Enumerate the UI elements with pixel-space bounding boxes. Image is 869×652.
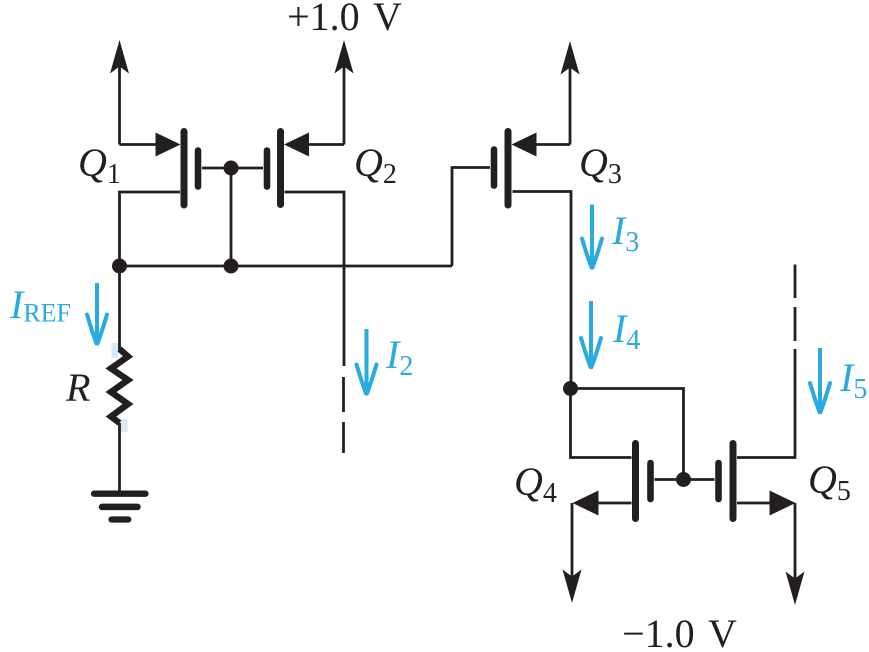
power arrow to +1.0V (Q3 source): [561, 41, 580, 145]
wire Q3 drain down: [513, 192, 572, 389]
wire I5 continuation dashed: [794, 265, 797, 342]
transistor Q3: [494, 132, 537, 206]
wire Q2 drain down: [285, 192, 345, 366]
transistor Q5: [719, 444, 796, 519]
current arrow I2: [357, 329, 377, 394]
ground: [94, 494, 146, 520]
junction gate node dot: [224, 161, 239, 176]
wire resistor to ground: [118, 423, 121, 491]
highlight mark bottom of resistor: [121, 419, 128, 432]
junction node A dot: [112, 259, 127, 274]
power arrow to +1.0V (Q1 source): [110, 40, 129, 145]
junction dot at node A / gate column: [224, 259, 239, 274]
wire Q1 drain to node A: [120, 192, 181, 266]
wire node A down to resistor: [118, 266, 121, 350]
current arrow I4: [581, 301, 601, 367]
junction dot Q4/Q5 gates: [676, 472, 691, 487]
current arrow I5: [810, 348, 830, 412]
wire Q1 gate to node: [202, 167, 231, 170]
power arrow to +1.0V (Q2 source): [335, 40, 354, 145]
transistor Q1: [156, 132, 199, 206]
current arrow I3: [582, 205, 602, 268]
highlight mark top of resistor: [112, 343, 119, 358]
transistor Q2: [267, 132, 309, 205]
wire gate node to Q2 gate: [231, 167, 263, 170]
wire I2 continuation dashed: [342, 377, 345, 453]
wire Q1 source lead: [120, 143, 163, 146]
svg-text:−1.0 V: −1.0 V: [622, 611, 737, 652]
wire Q4 source lead: [596, 502, 632, 505]
power arrow to -1.0V (Q5 source): [786, 503, 805, 605]
wire junction down to Q4 drain: [571, 389, 632, 458]
wire Q3 source lead: [534, 143, 570, 146]
wire Q2 source lead: [306, 143, 344, 146]
wire node A up to Q3 gate: [452, 168, 490, 267]
resistor R: [111, 349, 128, 423]
svg-text:R: R: [65, 365, 90, 410]
wire node A horizontal: [120, 265, 453, 268]
wire Q4 gate to gate dot: [655, 478, 684, 481]
transistor Q4: [573, 444, 651, 519]
current arrow IREF: [87, 283, 107, 344]
power arrow to -1.0V (Q4 source): [563, 503, 582, 603]
junction dot Q3 drain / Q4: [563, 381, 578, 396]
wire gate dot to Q5 gate: [684, 478, 715, 481]
wire Q5 drain up: [737, 349, 795, 458]
wire from junction to Q4/Q5 gate column: [571, 389, 684, 480]
wire Q5 source lead: [737, 502, 773, 505]
svg-text:+1.0 V: +1.0 V: [287, 0, 402, 39]
wire gate node down to node A: [230, 168, 233, 266]
